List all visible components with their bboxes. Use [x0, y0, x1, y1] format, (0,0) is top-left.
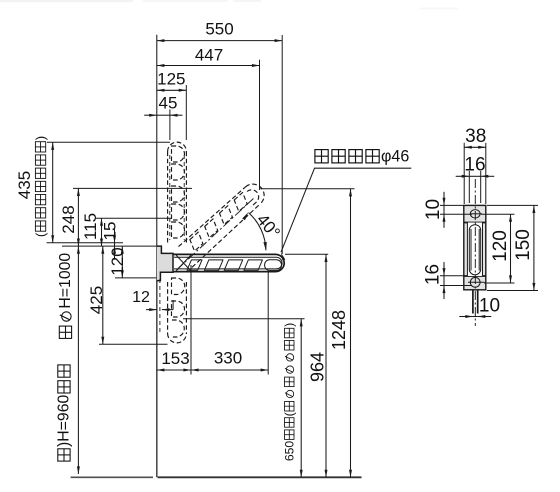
leader underline: [314, 167, 411, 169]
sv dim 16 bottom: [443, 276, 445, 286]
dim 248 line: [77, 188, 79, 246]
ext y218.2: [96, 217, 172, 219]
svg-text:150: 150: [513, 229, 534, 261]
svg-text:40°: 40°: [253, 210, 284, 242]
ext y318.8: [183, 318, 305, 320]
stowed arm dashed: [168, 142, 187, 151]
dim 425 line: [102, 246, 104, 344]
dim 12 right arrow: [162, 309, 173, 311]
dim 153 line: [157, 369, 191, 371]
angle arc 40: [249, 213, 266, 251]
sv dim 16 top: [469, 175, 480, 177]
dim 550 line: [157, 40, 282, 42]
ext 125 right: [185, 85, 187, 140]
svg-text:(: (: [33, 232, 48, 237]
dim 12 left arrow: [146, 309, 157, 311]
ext 550 right: [281, 35, 283, 254]
svg-text:120: 120: [108, 247, 127, 275]
svg-text:447: 447: [195, 45, 223, 64]
arm inner line: [174, 257, 282, 269]
svg-text:38: 38: [465, 126, 486, 147]
pivot cross marks: [176, 255, 191, 271]
dim 650 text: [282, 323, 296, 461]
dim 964 line: [325, 254, 327, 477]
svg-text:248: 248: [59, 205, 78, 233]
sv dim 150: [533, 205, 535, 290]
dim 435 line: [52, 142, 54, 243]
svg-text:45: 45: [159, 94, 178, 113]
dim 45 line: [157, 114, 170, 116]
svg-text:425: 425: [87, 286, 106, 314]
dim 447 line: [157, 65, 260, 67]
dim 125 line: [157, 89, 187, 91]
ext y344.3: [99, 343, 168, 345]
wall line lower: [156, 246, 158, 477]
svg-text:330: 330: [214, 349, 242, 368]
dim 650 line: [300, 319, 302, 478]
ext 447 right: [259, 60, 261, 190]
dim 115 line: [101, 218, 103, 246]
dim 15 line: [114, 243, 116, 246]
faint cropped text remnants top: [0, 0, 133, 2]
dim 330 line: [191, 369, 268, 371]
ext y188.4 left: [73, 187, 192, 189]
ext y242.8: [47, 242, 123, 244]
svg-text:): ): [282, 323, 296, 327]
svg-text:1248: 1248: [329, 310, 349, 350]
sv dim 10 bottom: [473, 316, 478, 318]
svg-text:15: 15: [101, 222, 120, 241]
dim 120 line: [121, 246, 123, 278]
side view plate: [464, 205, 486, 289]
dim 12 riser: [172, 300, 174, 310]
floor line left: [71, 476, 153, 478]
svg-text:550: 550: [205, 20, 233, 39]
text note H2: [56, 365, 73, 461]
ext 45 right: [169, 109, 171, 140]
ext x268.2: [267, 273, 269, 375]
svg-text:16: 16: [423, 264, 444, 285]
ext y246.1: [62, 245, 161, 247]
arm outline: [173, 254, 284, 271]
svg-text:115: 115: [81, 213, 100, 240]
dim H line: [77, 246, 79, 474]
svg-text:): ): [33, 136, 48, 140]
svg-text:12: 12: [132, 289, 150, 306]
bracket base plate: [157, 246, 173, 281]
wall line upper (extension): [156, 35, 158, 246]
leader text: [315, 150, 328, 163]
svg-text:153: 153: [161, 349, 189, 368]
svg-text:650: 650: [282, 441, 296, 462]
ext y254.2 right: [285, 253, 328, 255]
ext x191: [190, 265, 192, 375]
svg-text:10: 10: [423, 199, 444, 220]
svg-text:120: 120: [490, 230, 511, 262]
diagonal arm 40deg: [179, 187, 246, 247]
ext y277.9: [115, 277, 160, 279]
text note H: [57, 253, 74, 339]
arm slots: [187, 260, 202, 270]
ext y188.8 right: [260, 188, 354, 190]
sv dim 38: [464, 146, 486, 148]
ext top of stowed arm: [47, 141, 170, 143]
svg-text:(: (: [282, 412, 296, 416]
dim 1248 line: [350, 189, 352, 478]
text (stowed height note): [33, 136, 48, 237]
svg-text:)H=960: )H=960: [56, 395, 73, 447]
leader line: [281, 168, 315, 252]
sv dim 10 top: [443, 205, 445, 214]
svg-text:16: 16: [464, 155, 485, 176]
svg-text:435: 435: [15, 171, 34, 199]
svg-text:10: 10: [479, 296, 500, 317]
svg-text:H=1000: H=1000: [57, 253, 74, 309]
svg-text:φ46: φ46: [381, 147, 409, 166]
sv dim 120: [510, 214, 512, 283]
svg-text:964: 964: [308, 352, 328, 382]
svg-text:125: 125: [157, 70, 185, 89]
floor line right: [158, 476, 362, 478]
